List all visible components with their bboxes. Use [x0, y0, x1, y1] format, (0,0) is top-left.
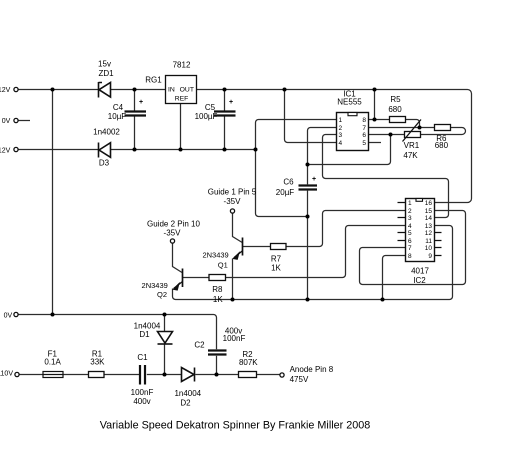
wire regulator REF to lower rail: [180, 104, 182, 150]
svg-text:C2: C2: [194, 341, 205, 350]
label IN OUT REF: [168, 87, 194, 103]
diode D1: [158, 332, 173, 345]
svg-text:+: +: [229, 99, 233, 106]
svg-text:D3: D3: [99, 159, 110, 168]
wire Q2 collector from guide terminal: [173, 243, 183, 273]
resistor R2: [239, 372, 257, 378]
svg-text:Q2: Q2: [157, 290, 167, 299]
svg-text:110V: 110V: [0, 371, 13, 378]
wire C6 bottom to ground rail: [307, 191, 309, 300]
terminal anode pin 8: [280, 373, 284, 377]
svg-text:100nF: 100nF: [223, 334, 246, 343]
svg-text:C4: C4: [113, 103, 124, 112]
terminal guide 1 pin 5: [230, 209, 234, 213]
svg-text:3: 3: [339, 132, 343, 139]
4017 left pin stubs: [398, 203, 406, 241]
svg-text:5: 5: [362, 140, 366, 147]
svg-text:11: 11: [425, 238, 432, 245]
wire 4017 pin8 to ground rail: [383, 256, 406, 300]
svg-text:Q1: Q1: [218, 260, 228, 269]
svg-text:12V: 12V: [0, 87, 11, 94]
svg-text:NE555: NE555: [337, 98, 362, 107]
svg-text:3: 3: [408, 215, 412, 222]
svg-text:9: 9: [428, 253, 432, 260]
4017 pin numbers: [408, 200, 432, 260]
svg-text:RG1: RG1: [145, 75, 162, 84]
wire Q2 base to R8: [183, 277, 210, 279]
svg-text:8: 8: [362, 117, 366, 124]
potentiometer VR1: [403, 120, 422, 142]
resistor R8: [209, 275, 226, 281]
junction pin8 node: [373, 118, 377, 122]
svg-text:16: 16: [425, 200, 433, 207]
wire Q1 base to R7: [243, 246, 271, 248]
junction C4 bottom: [133, 148, 137, 152]
svg-text:REF: REF: [175, 95, 189, 102]
junction pin4 riser on rail: [283, 88, 287, 92]
fuse F1: [43, 372, 63, 378]
svg-text:20µF: 20µF: [276, 188, 295, 197]
capacitor C1: [140, 365, 145, 385]
wire ZD1 to regulator IN: [111, 89, 166, 91]
zener diode ZD1: [99, 82, 111, 98]
terminal 0V top: [14, 118, 18, 122]
wire regulator OUT rail to 4017 pin 16: [197, 90, 472, 203]
svg-text:7: 7: [362, 125, 366, 132]
svg-text:Guide 1 Pin 5: Guide 1 Pin 5: [208, 187, 257, 196]
svg-text:R5: R5: [390, 95, 401, 104]
svg-text:1n4002: 1n4002: [93, 128, 120, 137]
svg-text:-35V: -35V: [224, 197, 242, 206]
svg-text:C5: C5: [205, 103, 216, 112]
wire pin6 node down and left to C6 line: [308, 135, 391, 165]
svg-text:-35V: -35V: [164, 229, 182, 238]
wire D3 to NE555 ground node: [111, 149, 256, 151]
svg-text:400v: 400v: [133, 397, 150, 406]
svg-text:R7: R7: [271, 254, 282, 263]
wire 110V line with component gaps: [19, 374, 280, 376]
svg-text:10: 10: [425, 245, 433, 252]
junction pin2/pin6 node on C6 line: [306, 163, 310, 167]
svg-text:1n4004: 1n4004: [174, 389, 201, 398]
junction C2 on 110V line: [215, 373, 219, 377]
wire NE555 pin4 to 12V rail: [285, 90, 337, 143]
IC2 4017 box: [406, 199, 435, 262]
svg-text:15v: 15v: [98, 60, 111, 69]
svg-text:2N3439: 2N3439: [142, 281, 168, 290]
wire 4017 pin7 to pin15: [360, 211, 466, 285]
capacitor C5: [214, 112, 236, 116]
op IC1 NE555 box: [337, 113, 369, 151]
svg-text:5: 5: [408, 230, 412, 237]
junction 0V rail / left vertical: [51, 313, 55, 317]
svg-text:D1: D1: [139, 330, 150, 339]
wire NE555 pin3 to 4017 pin14: [323, 135, 449, 218]
junction REF bottom: [179, 148, 183, 152]
terminal guide 2 pin 10: [170, 239, 174, 243]
wire 0V stub top: [18, 120, 30, 122]
wire 12V top rail left segment: [18, 89, 99, 91]
wire NE555 pin7 to R6: [369, 127, 435, 129]
svg-text:0.1A: 0.1A: [44, 358, 61, 367]
svg-text:680: 680: [388, 105, 402, 114]
svg-text:4: 4: [408, 223, 412, 230]
svg-text:475V: 475V: [290, 375, 309, 384]
junction pin8 riser on rail: [373, 88, 377, 92]
NE555 pin numbers: [339, 117, 367, 147]
junction C6 line on ground rail: [306, 298, 310, 302]
svg-text:C1: C1: [137, 353, 148, 362]
junction pin6/VR1 node: [389, 133, 393, 137]
svg-text:6: 6: [362, 132, 366, 139]
capacitor C6: [299, 186, 318, 190]
resistor R1: [89, 372, 105, 378]
svg-text:OUT: OUT: [180, 87, 194, 94]
svg-text:12V: 12V: [0, 148, 11, 155]
wire C4 leads: [134, 90, 136, 150]
diode D2: [182, 368, 195, 382]
terminal 110V: [15, 372, 19, 376]
junction lower rail end: [254, 148, 258, 152]
junction 12V rail / left vertical: [51, 88, 55, 92]
junction pin1 joins C6 line: [306, 215, 310, 219]
wire NE555 pin6 stub: [369, 134, 391, 136]
svg-text:D2: D2: [180, 399, 191, 408]
junction C5 bottom: [223, 148, 227, 152]
resistor R7: [271, 244, 287, 250]
junction Q1 emitter on ground rail: [231, 298, 235, 302]
wire Q1 emitter vertical: [232, 259, 234, 300]
svg-text:0V: 0V: [2, 118, 11, 125]
regulator RG1 7812 box: [166, 76, 197, 104]
svg-text:0V: 0V: [4, 312, 13, 319]
junction D1 on 110V line: [163, 373, 167, 377]
wire R5 right end down to pin7 line: [406, 120, 420, 128]
svg-text:4017: 4017: [411, 267, 429, 276]
4017 right pin stubs: [435, 233, 442, 256]
svg-text:14: 14: [425, 215, 433, 222]
junction 0V rail / D1: [163, 313, 167, 317]
svg-text:IC2: IC2: [413, 276, 426, 285]
wire VR1 left lead: [391, 134, 405, 136]
diode D3: [99, 143, 111, 158]
svg-text:4: 4: [339, 140, 343, 147]
resistor R5: [390, 117, 406, 123]
wire R7 to 4017 pin2: [286, 211, 406, 247]
resistor R6: [435, 125, 451, 131]
junction R5/pin7 node: [418, 126, 422, 130]
svg-text:Anode Pin 8: Anode Pin 8: [290, 365, 334, 374]
svg-text:1K: 1K: [271, 263, 281, 272]
transistor Q2: [173, 269, 182, 291]
svg-text:15: 15: [425, 208, 433, 215]
svg-text:100nF: 100nF: [131, 388, 154, 397]
wire ground rail Q2 emitter to 4017 pin13: [173, 226, 453, 300]
wire D1 leads: [164, 315, 166, 375]
junction 4017 pin8 on ground rail: [381, 298, 385, 302]
junction C5 top: [223, 88, 227, 92]
terminal 0V lower: [14, 312, 18, 316]
wire 12V lower line to D3: [18, 149, 99, 151]
svg-text:1K: 1K: [213, 295, 223, 304]
svg-text:807K: 807K: [239, 358, 258, 367]
terminal 12V top: [14, 87, 18, 91]
svg-text:VR1: VR1: [404, 141, 420, 150]
svg-text:2: 2: [408, 208, 412, 215]
svg-text:2N3439: 2N3439: [202, 250, 228, 259]
svg-text:R8: R8: [212, 285, 223, 294]
junction C4 top: [133, 88, 137, 92]
wire NE555 pin5 stub: [369, 142, 382, 144]
wire C5 leads: [224, 90, 226, 150]
svg-text:1: 1: [408, 200, 412, 207]
wire left vertical 12V-to-0V: [52, 90, 54, 315]
svg-text:C6: C6: [283, 178, 294, 187]
svg-text:IN: IN: [168, 87, 175, 94]
svg-text:47K: 47K: [403, 151, 418, 160]
wire R6 U-turn to VR1 right end: [421, 128, 466, 135]
wire NE555 pin2 to C6 top: [308, 128, 337, 185]
transistor Q1: [233, 238, 242, 260]
svg-text:100µF: 100µF: [195, 112, 218, 121]
svg-text:Variable Speed Dekatron Spinne: Variable Speed Dekatron Spinner By Frank…: [100, 420, 370, 432]
svg-text:10µF: 10µF: [108, 112, 127, 121]
wire NE555 pin8 stub to R5: [369, 119, 390, 121]
wire 0V rail to C2 top: [18, 315, 217, 350]
svg-text:+: +: [139, 99, 143, 106]
capacitor C4: [125, 112, 147, 116]
wire 12V rail down to pin8 node: [374, 90, 376, 120]
wire C2 bottom lead: [216, 356, 218, 375]
svg-text:33K: 33K: [90, 358, 105, 367]
svg-text:13: 13: [425, 223, 433, 230]
svg-text:7812: 7812: [173, 60, 191, 69]
svg-text:Guide 2 Pin 10: Guide 2 Pin 10: [147, 220, 200, 229]
svg-text:12: 12: [425, 230, 433, 237]
terminal 12V second: [14, 147, 18, 151]
svg-text:680: 680: [435, 141, 449, 150]
svg-text:2: 2: [339, 125, 343, 132]
svg-text:ZD1: ZD1: [98, 69, 114, 78]
svg-text:+: +: [312, 176, 316, 183]
svg-text:8: 8: [408, 253, 412, 260]
svg-text:6: 6: [408, 238, 412, 245]
capacitor C2: [208, 351, 227, 355]
wire NE555 pin1 to ground node: [256, 120, 337, 217]
svg-text:1: 1: [339, 117, 343, 124]
wire Q1 collector from guide terminal: [233, 213, 243, 242]
svg-text:7: 7: [408, 245, 412, 252]
wire R8 to 4017 pin4: [226, 226, 406, 278]
